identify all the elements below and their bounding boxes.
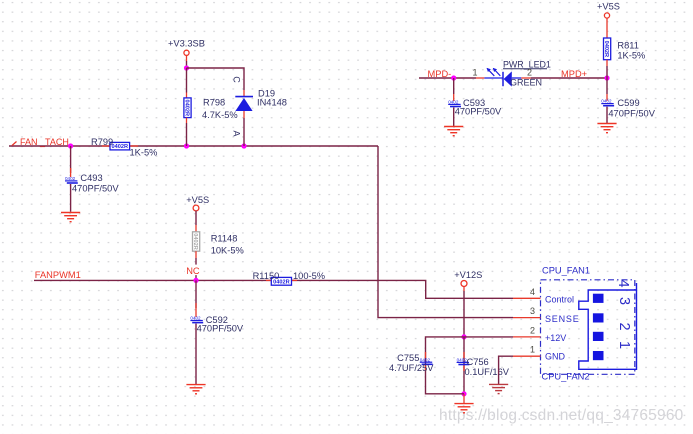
- ground (pin 1 GND): [489, 384, 508, 393]
- junction at R798 bottom: [184, 143, 189, 148]
- diode D19: [232, 76, 287, 146]
- svg-text:4: 4: [615, 279, 631, 287]
- svg-text:R799: R799: [91, 137, 113, 147]
- svg-text:100-5%: 100-5%: [293, 271, 325, 281]
- svg-text:+V3.3SB: +V3.3SB: [168, 39, 205, 49]
- wire stub to ground: [463, 394, 465, 403]
- connector body outline: [579, 283, 637, 369]
- connector CPU_FAN1: [513, 266, 637, 382]
- LED PWR_LED1: [473, 60, 551, 88]
- junction +V12S at +12V line: [461, 334, 466, 339]
- svg-text:FANPWM1: FANPWM1: [35, 270, 81, 280]
- svg-text:0402R: 0402R: [112, 144, 128, 150]
- svg-text:1: 1: [473, 67, 478, 77]
- junction at R1148/C592: [193, 278, 198, 283]
- svg-text:R798: R798: [203, 98, 225, 108]
- svg-text:2: 2: [616, 322, 632, 330]
- svg-text:MPD+: MPD+: [561, 69, 587, 79]
- svg-text:0402R: 0402R: [192, 233, 198, 249]
- pin 1 stub: [513, 355, 541, 357]
- svg-text:0402: 0402: [190, 316, 201, 321]
- svg-text:CPU_FAN2: CPU_FAN2: [542, 372, 590, 382]
- svg-text:FAN _TACH: FAN _TACH: [20, 137, 69, 147]
- svg-text:0402: 0402: [448, 100, 459, 105]
- junction at D19 anode: [241, 143, 246, 148]
- svg-text:MPD-: MPD-: [428, 69, 452, 79]
- capacitor C599: [601, 78, 655, 123]
- svg-text:3: 3: [530, 306, 535, 316]
- wire +12V (pin 2): [426, 337, 514, 394]
- power +V5S (middle): [186, 195, 209, 232]
- wire MPD+: [531, 77, 607, 79]
- svg-text:+V12S: +V12S: [454, 270, 482, 280]
- power +V5S (right): [597, 2, 620, 38]
- svg-text:10K-5%: 10K-5%: [211, 246, 244, 256]
- svg-text:0402: 0402: [65, 176, 76, 181]
- ground (C493): [61, 213, 80, 222]
- svg-text:SENSE: SENSE: [545, 314, 580, 324]
- connector pin pad 1: [593, 351, 604, 360]
- svg-text:0402: 0402: [601, 99, 612, 104]
- svg-text:1K-5%: 1K-5%: [130, 148, 158, 158]
- ground (C599): [597, 124, 616, 133]
- svg-text:4: 4: [530, 287, 535, 297]
- junction at C593 tap: [451, 75, 456, 80]
- svg-text:+V5S: +V5S: [186, 195, 209, 205]
- svg-text:1: 1: [530, 344, 535, 354]
- svg-text:2: 2: [530, 326, 535, 336]
- svg-text:0402R: 0402R: [603, 41, 609, 57]
- junction at R811 bottom: [604, 75, 609, 80]
- svg-text:GREEN: GREEN: [510, 78, 542, 88]
- power +V3.3SB: [168, 39, 205, 69]
- resistor R1150: [253, 271, 325, 285]
- capacitor C756: [457, 352, 510, 377]
- junction at bottom rail: [461, 391, 466, 396]
- svg-text:+V5S: +V5S: [597, 2, 620, 12]
- svg-text:https://blog.csdn.net/qq_34765: https://blog.csdn.net/qq_34765960: [439, 407, 684, 424]
- connector pin pad 3: [593, 313, 604, 322]
- capacitor C592: [190, 280, 244, 384]
- ground (C593): [444, 127, 463, 136]
- svg-text:4.7UF/25V: 4.7UF/25V: [389, 363, 434, 373]
- wire FANPWM1: [34, 280, 513, 298]
- ground (C592): [186, 385, 205, 394]
- svg-text:C599: C599: [617, 98, 639, 108]
- resistor R811: [603, 38, 645, 78]
- svg-text:0402R: 0402R: [183, 100, 189, 116]
- connector pin pad 4: [593, 294, 604, 303]
- svg-text:Control: Control: [545, 294, 574, 304]
- svg-text:0.1UF/16V: 0.1UF/16V: [465, 367, 510, 377]
- svg-text:GND: GND: [545, 352, 566, 362]
- svg-text:C755: C755: [397, 353, 419, 363]
- svg-text:470PF/50V: 470PF/50V: [455, 107, 502, 117]
- resistor R1148 (NC, grey): [192, 232, 244, 281]
- svg-text:NC: NC: [186, 266, 200, 276]
- junction below +V3.3SB: [184, 65, 189, 70]
- wire FAN_TACH vertical drop to SENSE: [378, 146, 513, 318]
- svg-text:470PF/50V: 470PF/50V: [72, 184, 119, 194]
- connector pin pad 2: [593, 332, 604, 341]
- svg-text:470PF/50V: 470PF/50V: [608, 109, 655, 119]
- capacitor C493: [65, 146, 119, 212]
- junction at C493 tap: [68, 143, 73, 148]
- svg-text:CPU_FAN1: CPU_FAN1: [542, 266, 590, 276]
- wire MPD-: [419, 77, 476, 79]
- pin 4 stub: [513, 297, 541, 299]
- wire GND (pin 1): [499, 356, 513, 384]
- svg-text:4.7K-5%: 4.7K-5%: [202, 110, 238, 120]
- svg-text:R1150: R1150: [253, 271, 280, 281]
- wire to D19 branch: [187, 68, 245, 90]
- svg-text:R811: R811: [617, 41, 639, 51]
- svg-text:+12V: +12V: [545, 333, 566, 343]
- svg-text:C493: C493: [80, 173, 102, 183]
- wire +12V branch vertical: [463, 337, 465, 394]
- node NC label: [185, 265, 200, 276]
- svg-text:1: 1: [616, 341, 632, 349]
- node FAN_TACH label: [12, 142, 17, 146]
- power +V12S: [454, 270, 482, 337]
- svg-text:3: 3: [616, 297, 632, 305]
- resistor R799: [91, 137, 157, 158]
- pin 2 stub: [513, 336, 541, 338]
- svg-text:A: A: [232, 130, 242, 136]
- capacitor C755: [389, 352, 434, 373]
- svg-text:470PF/50V: 470PF/50V: [197, 324, 244, 334]
- svg-text:R1148: R1148: [211, 233, 238, 243]
- svg-text:C756: C756: [467, 357, 489, 367]
- svg-text:C: C: [232, 76, 242, 83]
- ground (+V12S rail): [454, 404, 473, 413]
- resistor R798: [183, 68, 237, 146]
- svg-text:2: 2: [527, 67, 532, 77]
- svg-text:1K-5%: 1K-5%: [617, 51, 645, 61]
- wire FAN_TACH horizontal: [9, 145, 378, 147]
- svg-text:0402: 0402: [420, 357, 431, 362]
- capacitor C593: [448, 78, 502, 126]
- svg-text:IN4148: IN4148: [257, 98, 287, 108]
- pin 3 stub: [513, 317, 541, 319]
